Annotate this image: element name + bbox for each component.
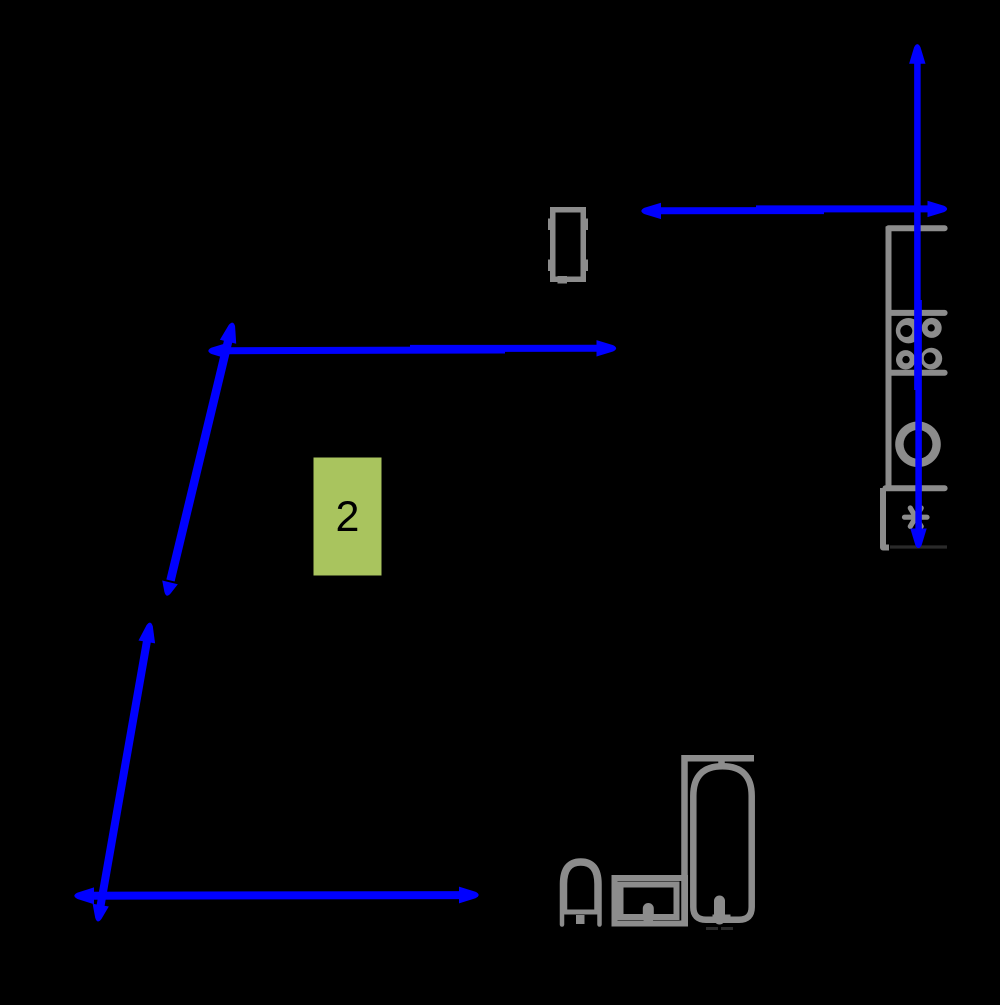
svg-text:2: 2 xyxy=(336,493,360,541)
